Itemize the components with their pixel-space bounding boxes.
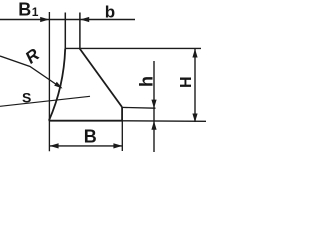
svg-text:H: H <box>178 76 195 88</box>
svg-text:B: B <box>18 0 31 20</box>
svg-text:h: h <box>137 76 157 87</box>
svg-text:b: b <box>105 3 115 22</box>
svg-text:B: B <box>84 126 97 146</box>
svg-text:1: 1 <box>32 5 39 19</box>
svg-text:S: S <box>22 90 31 106</box>
